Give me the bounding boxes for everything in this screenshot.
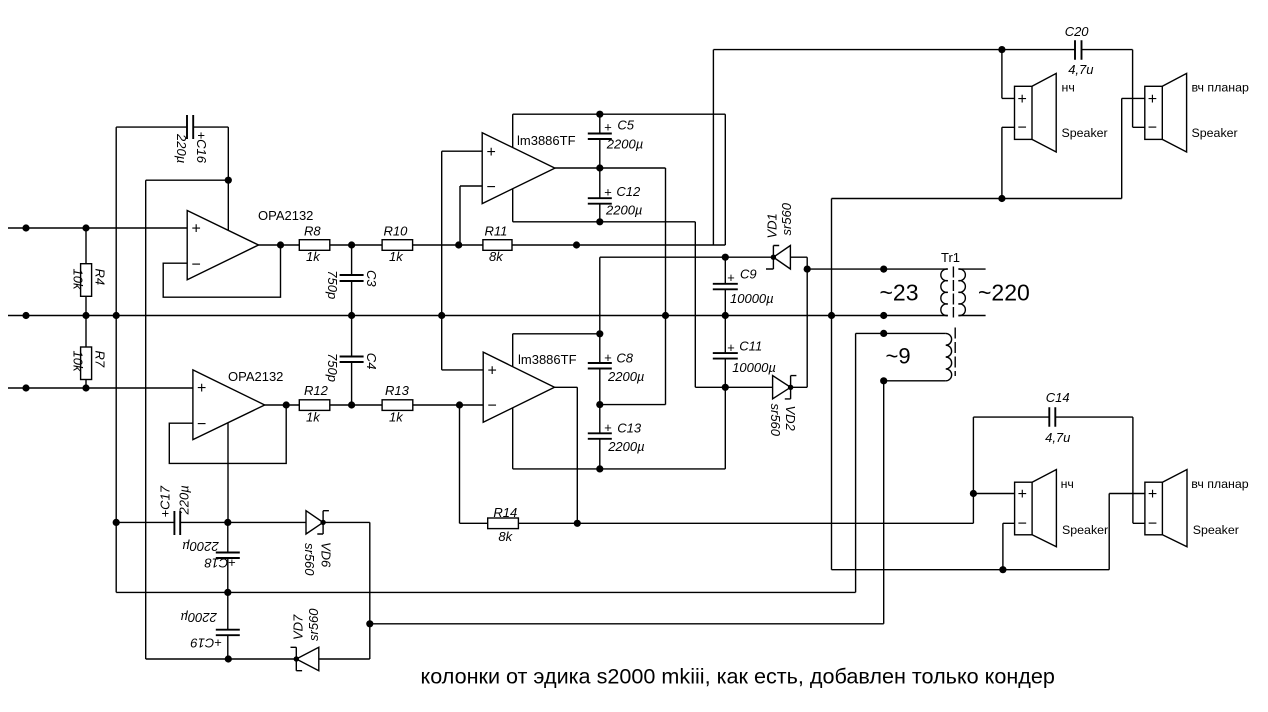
wire lm1 plus input	[442, 150, 483, 152]
svg-text:−: −	[197, 416, 206, 433]
wire lm2 left vertical behind triangle	[512, 334, 514, 469]
capacitor C16	[187, 115, 193, 139]
capacitor C3	[340, 275, 364, 281]
capacitor C20	[1075, 40, 1082, 60]
node C8 top	[596, 330, 603, 337]
svg-text:8k: 8k	[489, 249, 504, 264]
op-amp U2 OPA2132 lower	[193, 370, 265, 440]
svg-text:VD1: VD1	[764, 213, 779, 238]
svg-text:lm3886TF: lm3886TF	[517, 133, 576, 148]
svg-text:8k: 8k	[498, 529, 513, 544]
node C11 bottom	[722, 384, 729, 391]
wire top tweeter plus	[1122, 98, 1145, 198]
node R4 R7	[82, 312, 89, 319]
svg-text:C8: C8	[616, 350, 633, 365]
wire vertical A x713	[712, 50, 714, 245]
wire bottom woofer minus	[1003, 523, 1015, 569]
wire winding top row	[807, 268, 948, 270]
svg-text:+: +	[487, 144, 496, 161]
wire row y623	[370, 623, 884, 625]
svg-text:~220: ~220	[978, 280, 1030, 306]
svg-text:OPA2132: OPA2132	[258, 208, 313, 223]
svg-text:sr560: sr560	[768, 404, 783, 437]
wire VD2 row	[695, 386, 807, 388]
svg-text:C11: C11	[739, 338, 762, 353]
svg-text:~9: ~9	[886, 344, 911, 369]
diode VD2	[773, 376, 797, 399]
wire C17 VD6 row	[116, 521, 370, 523]
svg-text:220µ: 220µ	[174, 133, 189, 163]
node x116 c17row	[113, 519, 120, 526]
node C13 bottom	[596, 465, 603, 472]
resistor R8	[299, 240, 330, 251]
svg-text:C9: C9	[740, 266, 757, 281]
svg-text:Speaker: Speaker	[1062, 126, 1108, 140]
svg-text:+: +	[604, 350, 612, 365]
svg-text:1k: 1k	[389, 410, 404, 425]
svg-text:нч: нч	[1061, 477, 1074, 491]
node C3 bus	[348, 312, 355, 319]
wire opamp1 output row R8 R10 R11	[259, 244, 577, 246]
resistor R10	[382, 240, 413, 251]
wire vertical x369	[369, 522, 371, 659]
svg-text:2200µ: 2200µ	[182, 539, 219, 554]
node C5 top	[596, 111, 603, 118]
svg-text:+: +	[1148, 91, 1157, 108]
wire vertical x973 to C14	[972, 417, 974, 523]
node C17 left	[224, 519, 231, 526]
svg-text:вч планар: вч планар	[1191, 477, 1248, 491]
wire vertical x665 output down	[665, 168, 667, 405]
svg-text:750p: 750p	[325, 353, 340, 382]
Tr1 core dashed	[952, 267, 954, 318]
wire R11 right to loopB	[577, 244, 726, 246]
wire C16 top row	[116, 126, 228, 128]
wire opamp1 supply stub x228	[227, 180, 229, 230]
svg-text:~23: ~23	[880, 280, 919, 306]
wire input row1 stub	[8, 227, 187, 229]
wire C20 right down	[1133, 50, 1145, 128]
wire VD7 row	[146, 658, 370, 660]
wire opamp2 feedback loop	[169, 405, 286, 463]
svg-text:2200µ: 2200µ	[180, 610, 217, 625]
svg-text:10000µ: 10000µ	[730, 291, 774, 306]
svg-text:+: +	[727, 340, 735, 355]
node R10 R11	[455, 241, 462, 248]
wire left long vertical x145	[145, 180, 147, 659]
wire C19 chain	[227, 592, 229, 659]
node R12 C4	[348, 401, 355, 408]
svg-text:C13: C13	[617, 420, 642, 435]
svg-text:+: +	[604, 185, 612, 200]
capacitor C19	[216, 630, 240, 636]
wire C11 bottom link down	[724, 387, 726, 469]
node x831 bus	[828, 312, 835, 319]
node C18 bottom	[224, 589, 231, 596]
svg-text:2200µ: 2200µ	[606, 137, 643, 152]
op-amp U1 OPA2132 upper	[187, 211, 258, 280]
wire lm2 plus input	[442, 369, 484, 371]
svg-text:R8: R8	[304, 223, 321, 238]
svg-text:−: −	[1148, 120, 1157, 137]
node x116 bus	[113, 312, 120, 319]
wire top woofer plus	[1002, 50, 1015, 99]
wire row y592	[116, 591, 855, 593]
svg-text:sr560: sr560	[302, 543, 317, 576]
wire tr9 top lead	[856, 332, 946, 334]
node R13 node	[456, 401, 463, 408]
svg-text:+C17: +C17	[157, 485, 172, 517]
node tr9 top	[880, 330, 887, 337]
svg-text:2200µ: 2200µ	[605, 203, 642, 218]
wire opamp2 output row R12 R13	[265, 404, 484, 406]
svg-text:C12: C12	[616, 184, 641, 199]
node x665 bus	[662, 312, 669, 319]
svg-text:Speaker: Speaker	[1062, 523, 1108, 537]
svg-text:−: −	[1018, 120, 1027, 137]
node bottom plus	[970, 490, 977, 497]
svg-text:колонки от эдика s2000 mkiii,: колонки от эдика s2000 mkiii, как есть, …	[421, 664, 1055, 689]
node C8 C13	[596, 401, 603, 408]
capacitor C8	[588, 363, 612, 369]
resistor R4	[81, 264, 92, 297]
svg-text:+: +	[1148, 486, 1157, 503]
svg-text:R11: R11	[485, 223, 508, 238]
svg-text:вч планар: вч планар	[1192, 81, 1249, 95]
svg-text:R14: R14	[493, 505, 517, 520]
wire node row y180	[146, 179, 229, 181]
capacitor C5	[588, 134, 612, 140]
svg-text:+: +	[1018, 91, 1027, 108]
node R4 top	[82, 224, 89, 231]
node C19 bottom	[225, 655, 232, 662]
WIRES-LAYER	[8, 50, 1145, 659]
node R7 bottom	[82, 384, 89, 391]
node input1	[22, 224, 29, 231]
svg-text:+C19: +C19	[191, 636, 222, 651]
wire C18 chain	[227, 522, 229, 592]
svg-text:sr560: sr560	[779, 202, 794, 235]
node C16 right	[225, 177, 232, 184]
capacitor C13	[588, 433, 612, 439]
svg-text:C14: C14	[1046, 390, 1070, 405]
node R11 out	[573, 241, 580, 248]
svg-text:+: +	[604, 120, 612, 135]
Tr1 secondary winding right	[958, 269, 965, 316]
svg-text:+: +	[192, 221, 201, 238]
wire input row3 stub	[8, 387, 193, 389]
node C9 C11 bus	[722, 312, 729, 319]
svg-text:+: +	[197, 380, 206, 397]
wire R7 leads	[85, 316, 87, 389]
svg-text:−: −	[192, 257, 201, 274]
wire bottom woofer plus	[973, 493, 1014, 495]
svg-text:sr560: sr560	[306, 608, 321, 641]
node VD2 apex	[788, 385, 793, 390]
diode VD1	[766, 246, 790, 270]
wire mid ground bus	[8, 315, 948, 317]
svg-text:C5: C5	[617, 117, 634, 132]
speaker bottom woofer	[1015, 482, 1033, 535]
wire VD1 row	[600, 257, 807, 387]
wire lm2 mid row	[600, 404, 666, 406]
svg-text:1k: 1k	[306, 410, 321, 425]
svg-text:R4: R4	[93, 269, 108, 286]
node R8 C3	[348, 241, 355, 248]
wire lm2 output	[555, 387, 578, 523]
svg-text:R13: R13	[385, 383, 410, 398]
svg-text:Speaker: Speaker	[1193, 523, 1239, 537]
wire lm1 minus input	[460, 186, 482, 245]
svg-text:4,7u: 4,7u	[1068, 62, 1093, 77]
wire left long vertical x116	[115, 127, 117, 592]
wire vertical x695	[694, 222, 696, 387]
node top return	[998, 195, 1005, 202]
svg-text:Speaker: Speaker	[1192, 126, 1238, 140]
wire vertical x831	[831, 199, 833, 570]
resistor R11	[483, 240, 512, 251]
wire C14 right down	[1133, 417, 1145, 523]
svg-text:10k: 10k	[70, 269, 85, 291]
capacitor C14	[1049, 407, 1055, 427]
svg-text:+C18: +C18	[204, 556, 236, 571]
node winding top	[880, 266, 887, 273]
svg-text:+C16: +C16	[194, 132, 209, 164]
svg-text:10000µ: 10000µ	[732, 360, 776, 375]
svg-text:2200µ: 2200µ	[607, 369, 644, 384]
wire lm1 top rail	[513, 113, 726, 115]
capacitor C12	[588, 198, 612, 204]
svg-text:4,7u: 4,7u	[1045, 430, 1070, 445]
svg-text:C3: C3	[364, 270, 379, 287]
node VD6 apex	[320, 520, 325, 525]
svg-text:R10: R10	[384, 223, 409, 238]
svg-text:OPA2132: OPA2132	[228, 369, 283, 384]
wire C3 link	[351, 245, 353, 316]
wire top woofer minus	[1002, 127, 1015, 198]
wire C9 C11 chain	[724, 257, 726, 387]
wire R14 row	[460, 522, 974, 524]
svg-text:−: −	[1148, 516, 1157, 533]
node C12 bottom	[596, 218, 603, 225]
svg-text:1k: 1k	[389, 249, 404, 264]
svg-text:+: +	[1018, 486, 1027, 503]
capacitor C18	[216, 553, 240, 559]
svg-text:+: +	[604, 420, 612, 435]
wire C16 right vertical to node	[227, 127, 229, 180]
node row623 left	[366, 620, 373, 627]
wire lm1 bottom rail	[513, 221, 696, 223]
wire R4 leads	[85, 228, 87, 316]
wire Tr1 right leads	[958, 269, 985, 315]
capacitor C4	[340, 357, 364, 363]
node C20 left	[998, 46, 1005, 53]
svg-text:−: −	[488, 398, 497, 415]
resistor R14	[488, 518, 519, 529]
wire R13 node down to R14	[459, 405, 461, 523]
node opa2 out	[283, 401, 290, 408]
node VD1 apex	[771, 255, 776, 260]
svg-text:lm3886TF: lm3886TF	[518, 352, 577, 367]
node x441 bus	[438, 312, 445, 319]
wire C5 C12 chain	[599, 114, 601, 222]
resistor R13	[382, 400, 413, 411]
node input2	[22, 312, 29, 319]
svg-text:VD7: VD7	[291, 614, 306, 640]
wire bottom return bus	[832, 569, 1110, 571]
speaker bottom tweeter	[1145, 482, 1163, 535]
node C5 C12	[596, 164, 603, 171]
wire C8 C13 chain	[599, 257, 601, 469]
node winding bottom	[880, 312, 887, 319]
svg-text:220µ: 220µ	[177, 485, 192, 515]
wire lm1 left vertical behind triangle	[512, 114, 514, 222]
capacitor C11	[713, 353, 738, 359]
wire lm2 bottom rail	[513, 468, 726, 470]
op-amp U3 lm3886TF upper	[482, 133, 555, 204]
capacitor C9	[713, 284, 738, 290]
wire vertical x883	[883, 381, 885, 624]
svg-text:10k: 10k	[70, 351, 85, 373]
svg-text:+: +	[727, 270, 735, 285]
wire C20 row	[713, 49, 1132, 51]
Tr1 primary winding left	[941, 269, 948, 316]
svg-text:2200µ: 2200µ	[607, 439, 644, 454]
svg-text:нч: нч	[1062, 81, 1075, 95]
diode VD7	[291, 647, 319, 670]
wire C14 row	[973, 416, 1133, 418]
node opa1 out	[277, 241, 284, 248]
svg-text:R7: R7	[93, 351, 108, 368]
diode VD6	[306, 511, 329, 534]
svg-text:R12: R12	[304, 383, 329, 398]
node VD7 apex	[294, 656, 299, 661]
node tr9 bottom	[880, 377, 887, 384]
node input3	[22, 384, 29, 391]
wire top return bus	[832, 198, 1122, 200]
svg-text:750p: 750p	[325, 270, 340, 299]
wire vertical B x725	[724, 114, 726, 245]
node bottom return	[999, 566, 1006, 573]
resistor R12	[299, 400, 330, 411]
svg-text:VD6: VD6	[319, 542, 334, 568]
wire vertical x855	[855, 333, 857, 592]
svg-text:−: −	[1018, 516, 1027, 533]
svg-text:C4: C4	[364, 353, 379, 370]
wire lm1 output row	[555, 167, 666, 169]
svg-text:VD2: VD2	[783, 406, 798, 432]
wire C4 link	[351, 316, 353, 406]
svg-text:Tr1: Tr1	[941, 250, 960, 265]
node C9 top	[722, 254, 729, 261]
wire lm input vertical x441	[441, 151, 443, 370]
resistor R7	[81, 347, 92, 380]
wire opamp2 supply stub x228	[227, 423, 229, 523]
speaker top tweeter	[1145, 86, 1163, 139]
wire lm2 top rail	[513, 333, 600, 335]
svg-text:−: −	[487, 179, 496, 196]
capacitor C17	[174, 511, 180, 535]
Tr1 aux winding ~9	[946, 333, 952, 380]
Tr1 aux core dashed	[954, 328, 956, 377]
svg-text:C20: C20	[1065, 24, 1090, 39]
wire bottom tweeter plus	[1109, 494, 1145, 570]
node lm2 out R14	[574, 520, 581, 527]
op-amp U4 lm3886TF lower	[483, 352, 554, 422]
wire opamp1 feedback loop	[163, 245, 280, 297]
speaker top woofer	[1015, 86, 1033, 139]
wire tr9 bottom lead	[884, 380, 946, 382]
svg-text:1k: 1k	[306, 249, 321, 264]
node VD diag	[804, 266, 811, 273]
svg-text:+: +	[488, 363, 497, 380]
